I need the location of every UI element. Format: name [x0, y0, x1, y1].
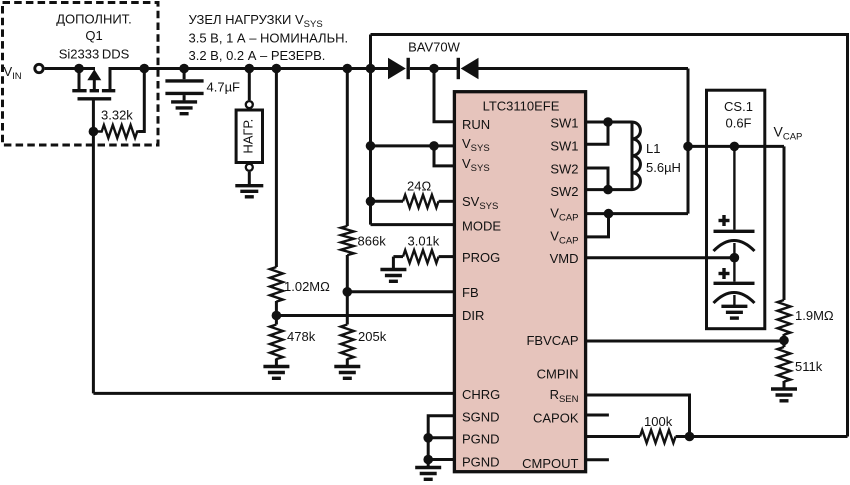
svg-text:478k: 478k — [287, 329, 316, 344]
node 100k/RSEN junction — [685, 432, 695, 442]
wire 866k to FB node — [346, 255, 349, 325]
resistor 24Ω — [403, 195, 439, 208]
svg-text:FBVCAP: FBVCAP — [526, 333, 578, 348]
node VSYS rail / diode junction — [366, 64, 376, 74]
wire FBVCAP pin — [586, 340, 784, 343]
node VCAP riser junction — [683, 142, 693, 152]
svg-text:L1: L1 — [646, 141, 660, 156]
svg-text:3.32k: 3.32k — [101, 108, 133, 123]
ground (205k) — [334, 359, 360, 379]
capacitor 4.7uF — [165, 69, 203, 94]
svg-text:3.5 В, 1 А – НОМИНАЛЬН.: 3.5 В, 1 А – НОМИНАЛЬН. — [189, 31, 349, 46]
resistor 100k — [640, 430, 676, 443]
source stub — [78, 69, 81, 90]
wire VIN to Q1 source — [45, 67, 95, 70]
ground (supercap internal) — [721, 295, 747, 318]
node Q1 source junction — [74, 64, 84, 74]
ground (4.7uF) — [171, 95, 197, 114]
node BAV70W midpoint — [429, 64, 439, 74]
resistor 1.9MΩ — [778, 300, 791, 335]
wire SW2b — [586, 188, 632, 191]
svg-text:3.01k: 3.01k — [408, 234, 440, 249]
wire CHRG — [93, 392, 454, 395]
svg-text:SW1: SW1 — [550, 116, 578, 131]
wire SW1b — [586, 122, 608, 144]
svg-text:205k: 205k — [358, 329, 387, 344]
resistor 478k — [270, 325, 283, 360]
wire 1.9M to node — [783, 334, 786, 347]
svg-text:CHRG: CHRG — [462, 387, 500, 402]
wire CAPOK stub — [586, 414, 609, 417]
wire VCAP net to supercap and divider — [688, 145, 784, 148]
svg-text:24Ω: 24Ω — [407, 179, 431, 194]
ground (478k) — [263, 359, 289, 379]
transistor Q1 (P-MOSFET Si2333DDS) — [72, 69, 115, 132]
wire VMD pin — [586, 256, 735, 259]
node 1.02M top junction — [272, 64, 282, 74]
ground (PGND) — [415, 460, 441, 480]
capacitor CS.1 supercap box — [707, 90, 765, 329]
wire BAV70W mid to RUN — [434, 69, 454, 122]
drain contact bar — [102, 89, 115, 92]
wire PGND2 — [428, 458, 454, 461]
node 24ohm junction — [366, 197, 376, 207]
resistor 511k — [778, 347, 791, 382]
svg-text:SW2: SW2 — [550, 162, 578, 177]
wire MODE pin — [371, 223, 455, 226]
wire 100k row — [586, 435, 640, 438]
drain stub — [110, 69, 113, 90]
svg-text:PGND: PGND — [462, 432, 500, 447]
node VSYS1 on vertical — [366, 141, 376, 151]
wire SGND — [428, 416, 454, 460]
wire 3.01k to PROG pin — [439, 255, 455, 258]
wire junction to right rail — [676, 435, 848, 438]
wire PGND1 — [428, 436, 454, 439]
node load junction — [245, 64, 255, 74]
svg-text:0.6F: 0.6F — [725, 116, 751, 131]
node 4.7uF junction — [179, 64, 189, 74]
body contact bar — [90, 89, 99, 92]
wire PROG ground link — [393, 255, 403, 258]
svg-text:3.2 В, 0.2 А – РЕЗЕРВ.: 3.2 В, 0.2 А – РЕЗЕРВ. — [189, 48, 326, 63]
inductor L1 5.6uH — [631, 122, 634, 190]
wire RSEN pin — [586, 395, 690, 437]
svg-text:SW2: SW2 — [550, 184, 578, 199]
wire gate to CHRG (long vertical) — [92, 132, 95, 394]
ground (511k) — [771, 381, 797, 401]
wire FB pin — [347, 290, 454, 293]
svg-text:1.9MΩ: 1.9MΩ — [795, 308, 834, 323]
ground (PROG) — [380, 257, 406, 282]
wire to 24ohm — [371, 200, 404, 203]
wire VCAPa pin — [586, 212, 688, 215]
wire VCAP vertical riser — [687, 69, 690, 214]
svg-text:RUN: RUN — [462, 117, 490, 132]
resistor 3.32k — [93, 125, 143, 138]
wire rail to 1.02M — [275, 69, 278, 268]
svg-text:PROG: PROG — [462, 250, 500, 265]
node SW1 — [603, 117, 613, 127]
source contact bar — [72, 89, 86, 92]
node 3.32k top — [140, 64, 150, 74]
node VIN terminal — [35, 64, 43, 72]
svg-text:MODE: MODE — [462, 219, 501, 234]
svg-text:5.6µH: 5.6µH — [646, 160, 681, 175]
resistor 3.01k — [403, 250, 439, 263]
wire VCAP to divider — [783, 146, 786, 300]
node VCAP pins — [604, 209, 614, 219]
svg-text:866k: 866k — [358, 234, 387, 249]
svg-text:100k: 100k — [644, 414, 673, 429]
diode BAV70W left — [371, 58, 458, 79]
node PGND1 — [423, 433, 433, 443]
wire 1.02M to DIR node — [275, 301, 278, 325]
wire 3.32k to rail — [139, 69, 145, 132]
body arrow shaft — [93, 79, 96, 90]
svg-text:DIR: DIR — [462, 308, 484, 323]
diode BAV70W right — [458, 58, 688, 79]
svg-text:CS.1: CS.1 — [724, 99, 753, 114]
wire top rail to right edge — [371, 35, 848, 437]
svg-text:CAPOK: CAPOK — [533, 411, 579, 426]
load НАГР. — [236, 69, 262, 185]
node VSYS1 branch — [429, 141, 439, 151]
svg-text:VMD: VMD — [550, 251, 579, 266]
svg-text:FB: FB — [462, 285, 479, 300]
svg-text:SGND: SGND — [462, 410, 500, 425]
svg-text:PGND: PGND — [462, 455, 500, 470]
svg-text:1.02MΩ: 1.02MΩ — [284, 279, 330, 294]
svg-text:Si2333 DDS: Si2333 DDS — [59, 47, 130, 62]
svg-text:CMPIN: CMPIN — [537, 367, 579, 382]
svg-text:4.7µF: 4.7µF — [207, 80, 241, 95]
node supercap mid / VMD — [730, 253, 740, 263]
svg-text:Q1: Q1 — [85, 28, 102, 43]
svg-text:CMPOUT: CMPOUT — [522, 456, 578, 471]
wire VSYS2 pin — [434, 146, 454, 166]
dashed optional box — [3, 3, 159, 146]
wire DIR pin — [276, 314, 454, 317]
svg-text:ДОПОЛНИТ.: ДОПОЛНИТ. — [56, 11, 132, 26]
svg-text:SW1: SW1 — [550, 139, 578, 154]
ground (load) — [235, 186, 263, 197]
node gate / 3.32k junction — [89, 127, 99, 137]
wire VSYS vertical (top wire to MODE) — [369, 35, 372, 225]
wire 24ohm to SVSYS pin — [439, 200, 455, 203]
node SW2 — [603, 185, 613, 195]
resistor 866k — [341, 226, 354, 255]
node supercap top — [730, 142, 740, 152]
svg-text:511k: 511k — [795, 359, 823, 374]
svg-text:BAV70W: BAV70W — [408, 40, 461, 55]
wire SW2a — [586, 168, 608, 190]
svg-text:НАГР.: НАГР. — [240, 119, 255, 154]
node 866k top junction — [343, 64, 353, 74]
wire VCAPb pin — [586, 214, 609, 237]
capacitor cell 2 — [714, 258, 755, 303]
wire rail to 866k — [346, 69, 349, 227]
node DIR — [272, 311, 282, 321]
wire CMPOUT stub — [586, 458, 609, 461]
node FB — [343, 287, 353, 297]
body arrow head — [87, 69, 101, 80]
op-amp U1 LTC3110EFE chip body — [454, 92, 585, 472]
gate lead — [92, 100, 95, 131]
resistor 1.02M — [270, 267, 283, 302]
svg-text:LTC3110EFE: LTC3110EFE — [483, 98, 560, 113]
resistor 205k — [341, 325, 354, 360]
node PGND2 — [423, 455, 433, 465]
wire SW1a — [586, 121, 632, 124]
gate bar — [78, 97, 112, 100]
capacitor cell 1 — [714, 146, 755, 257]
wire VSYS1 pin — [371, 144, 455, 147]
node FBVCAP divider — [779, 336, 789, 346]
wire main VSYS rail — [110, 67, 371, 70]
